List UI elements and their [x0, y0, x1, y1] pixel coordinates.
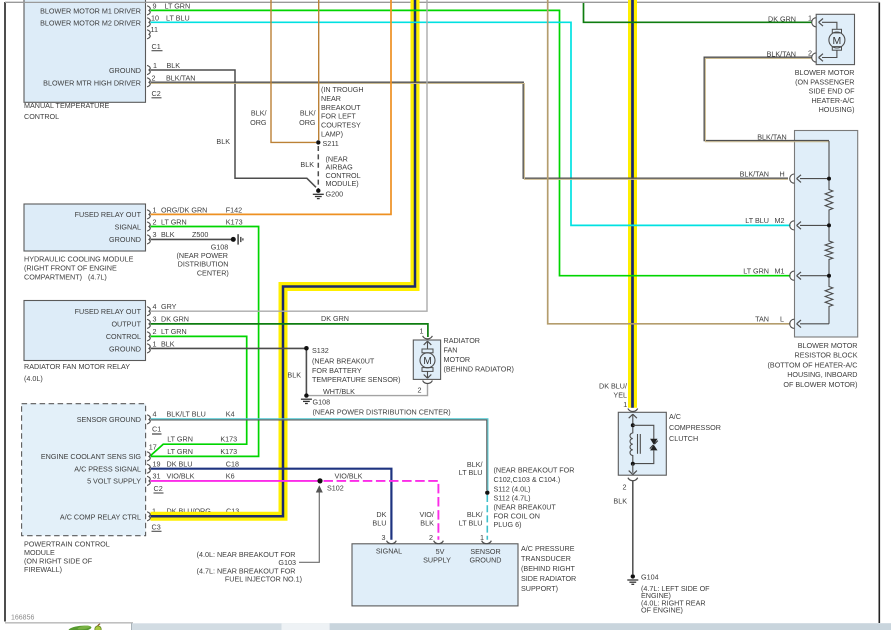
svg-text:TRANSDUCER: TRANSDUCER: [521, 554, 571, 563]
wire: TAN from top of page to resistor block L: [548, 0, 791, 324]
svg-text:BLOWER MOTOR: BLOWER MOTOR: [795, 68, 855, 77]
wire: LT BLU blower motor M2 driver (pin 10 to resistor block M2): [151, 22, 791, 225]
svg-text:K4: K4: [226, 410, 235, 419]
ground G108 (Z500, sideways): [231, 237, 236, 242]
wire: BLK relay ground pin 1 to S132: [151, 347, 306, 349]
svg-text:2: 2: [152, 73, 156, 82]
svg-text:VIO/: VIO/: [420, 510, 434, 519]
svg-text:DK GRN: DK GRN: [161, 315, 189, 324]
svg-text:YEL: YEL: [613, 391, 627, 400]
svg-text:S112 (4.7L): S112 (4.7L): [494, 494, 531, 503]
svg-text:G200: G200: [326, 190, 344, 199]
module box: manual temperature control U1: [24, 0, 146, 102]
wire: BLK A/C compressor clutch pin 2 to G104: [632, 481, 634, 574]
svg-text:CLUTCH: CLUTCH: [669, 434, 698, 443]
svg-text:FAN: FAN: [444, 346, 458, 355]
wire: VIO/BLK K6 PCM 5 volt supply to S102: [151, 480, 318, 482]
bottom taskbar strip: [132, 623, 891, 630]
svg-text:A/C: A/C: [669, 412, 681, 421]
wire: BLK/LT BLU dashed from S112 to transducer pin 1: [486, 495, 488, 540]
svg-text:BLK/TAN: BLK/TAN: [166, 73, 195, 82]
wire: DK BLU C18 PCM A/C press signal to transducer pin 3: [151, 469, 392, 540]
svg-text:S211: S211: [323, 139, 339, 148]
svg-text:2: 2: [623, 483, 627, 492]
svg-text:LT GRN: LT GRN: [743, 266, 769, 275]
svg-text:2: 2: [153, 327, 157, 336]
svg-text:LT GRN: LT GRN: [161, 327, 187, 336]
labels: S132 / G108 / radiator fan motor: [287, 326, 514, 416]
svg-text:BREAKOUT: BREAKOUT: [321, 103, 361, 112]
svg-text:COURTESY: COURTESY: [321, 121, 361, 130]
ground G104: [631, 574, 635, 578]
svg-text:NEAR: NEAR: [321, 94, 341, 103]
labels: A/C compressor clutch / G104: [599, 382, 721, 615]
svg-text:COMPRESSOR: COMPRESSOR: [669, 423, 721, 432]
svg-text:RADIATOR: RADIATOR: [444, 336, 480, 345]
svg-text:CENTER): CENTER): [197, 269, 229, 278]
connector brackets: hydraulic cooling module pins 1,2,3: [147, 210, 150, 219]
labels: S102 / G103 note: [197, 471, 363, 583]
svg-text:BLOWER MOTOR M1 DRIVER: BLOWER MOTOR M1 DRIVER: [40, 6, 141, 15]
svg-text:DISTRIBUTION: DISTRIBUTION: [178, 260, 229, 269]
svg-text:FUSED RELAY OUT: FUSED RELAY OUT: [75, 307, 142, 316]
svg-text:BLK: BLK: [287, 371, 301, 380]
svg-text:ORG/DK GRN: ORG/DK GRN: [161, 205, 207, 214]
svg-text:OF ENGINE): OF ENGINE): [641, 606, 683, 615]
svg-text:(NEAR BREAK0UT: (NEAR BREAK0UT: [312, 357, 375, 366]
svg-text:M2: M2: [775, 216, 785, 225]
svg-text:S112 (4.0L): S112 (4.0L): [494, 485, 531, 494]
svg-text:S102: S102: [327, 484, 344, 493]
labels: blower motor / resistor block: [740, 14, 858, 389]
svg-text:BLOWER MOTOR M2 DRIVER: BLOWER MOTOR M2 DRIVER: [40, 18, 141, 27]
svg-text:GROUND: GROUND: [470, 556, 502, 565]
ground G108 (near power distribution center): [304, 393, 308, 397]
resistor R-H/M2: [825, 190, 833, 211]
svg-text:C18: C18: [226, 460, 239, 469]
component box: blower motor M1: [816, 14, 854, 64]
svg-text:L: L: [780, 315, 784, 324]
svg-text:BLOWER MTR HIGH DRIVER: BLOWER MTR HIGH DRIVER: [43, 78, 141, 87]
svg-text:DK GRN: DK GRN: [321, 314, 349, 323]
wire: BLK S132 down to G108: [305, 350, 307, 394]
svg-text:BLK/TAN: BLK/TAN: [740, 169, 769, 178]
radiator fan motor internal symbol: [427, 341, 429, 349]
svg-text:BLK: BLK: [167, 61, 181, 70]
svg-text:1: 1: [480, 533, 484, 542]
svg-text:5 VOLT SUPPLY: 5 VOLT SUPPLY: [87, 477, 141, 486]
svg-text:LAMP): LAMP): [321, 129, 343, 138]
connector underline C1 C2 (manual temp control): [152, 50, 163, 52]
svg-text:RADIATOR FAN MOTOR RELAY: RADIATOR FAN MOTOR RELAY: [24, 362, 130, 371]
wire: LT GRN relay control pin 2 to PCM pin 17 (upper row): [150, 336, 246, 455]
svg-text:3: 3: [153, 315, 157, 324]
svg-text:1: 1: [153, 205, 157, 214]
labels: hydraulic cooling module pins: [24, 205, 243, 281]
svg-text:11: 11: [151, 25, 158, 34]
module box: powertrain control module U3 (dashed): [22, 404, 146, 536]
svg-text:MOTOR: MOTOR: [444, 355, 471, 364]
wire highlight: DK BLU/YEL yellow band to A/C compressor clutch: [628, 0, 637, 408]
resistor R-M2/M1: [825, 241, 833, 260]
svg-text:OUTPUT: OUTPUT: [111, 320, 141, 329]
component box: A/C compressor clutch L1: [618, 412, 666, 475]
svg-text:BLK: BLK: [300, 160, 314, 169]
svg-text:PLUG 6): PLUG 6): [494, 520, 522, 529]
ground G200: [316, 189, 320, 193]
svg-text:K173: K173: [226, 217, 243, 226]
svg-text:C3: C3: [152, 523, 161, 532]
leader line to S102 from G103 note: [299, 492, 319, 562]
svg-text:BLK: BLK: [613, 497, 627, 506]
svg-text:BLK/: BLK/: [300, 109, 316, 118]
svg-text:BLK: BLK: [161, 340, 175, 349]
svg-text:M: M: [833, 35, 842, 47]
svg-text:MANUAL TEMPERATURE: MANUAL TEMPERATURE: [24, 101, 110, 110]
svg-text:166856: 166856: [11, 615, 34, 622]
svg-text:C2: C2: [154, 484, 163, 493]
wire highlight: DK BLU/ORG circuit yellow band (PCM pin1 to top of page): [151, 0, 416, 516]
svg-text:FOR BATTERY: FOR BATTERY: [312, 366, 362, 375]
wire: DK BLU/YEL core to A/C compressor clutch pin 1: [631, 0, 634, 408]
svg-text:1: 1: [153, 61, 157, 70]
svg-text:(NEAR BREAKOUT FOR: (NEAR BREAKOUT FOR: [494, 466, 575, 475]
svg-text:2: 2: [418, 385, 422, 394]
A/C compressor clutch pin 1 bracket: [628, 409, 638, 412]
svg-text:OF BLOWER MOTOR): OF BLOWER MOTOR): [783, 380, 857, 389]
svg-text:19: 19: [153, 460, 161, 469]
connector brackets: PCM pins 4,17,19,31,1: [147, 415, 150, 424]
bottom page edge line: [5, 622, 133, 624]
svg-text:H: H: [780, 169, 785, 178]
svg-text:4: 4: [153, 410, 157, 419]
svg-text:HOUSING): HOUSING): [819, 105, 855, 114]
frame top border (over boxes): [5, 1, 880, 3]
connector brackets: manual temperature control pins 9,10,11,1,2: [147, 6, 150, 15]
svg-text:C1: C1: [152, 42, 161, 51]
resistor block pin L bracket: [790, 319, 801, 328]
svg-text:VIO/BLK: VIO/BLK: [335, 471, 363, 480]
A/C compressor clutch pin 2 bracket: [628, 478, 638, 481]
svg-text:CONTROL: CONTROL: [106, 332, 141, 341]
splice S211: [316, 140, 320, 144]
wire: BLK/LT BLU K4 PCM sensor ground to S112 / transducer pin 1: [151, 419, 488, 491]
blower motor pin 1 bracket: [812, 18, 823, 27]
wire: DK BLU/ORG core C13 (PCM A/C comp relay ctrl): [151, 0, 416, 516]
svg-text:(IN TROUGH: (IN TROUGH: [321, 85, 364, 94]
svg-text:A/C PRESS SIGNAL: A/C PRESS SIGNAL: [74, 465, 141, 474]
svg-text:K173: K173: [220, 447, 237, 456]
resistor R-M1/L: [825, 287, 833, 307]
svg-text:(ON PASSENGER: (ON PASSENGER: [795, 77, 854, 86]
svg-text:K173: K173: [220, 435, 237, 444]
module box: hydraulic cooling module U2: [24, 204, 146, 251]
transducer pin 3 bracket: [387, 541, 397, 544]
svg-text:C2: C2: [152, 89, 161, 98]
transducer pin 2 bracket: [434, 541, 444, 544]
svg-text:FUSED RELAY OUT: FUSED RELAY OUT: [75, 210, 142, 219]
svg-text:BLK/: BLK/: [467, 510, 483, 519]
svg-text:ORG: ORG: [250, 118, 267, 127]
svg-text:Z500: Z500: [192, 230, 208, 239]
svg-text:HOUSING, INBOARD: HOUSING, INBOARD: [787, 370, 857, 379]
connector brackets: radiator fan motor relay pins 4,3,2,1: [147, 307, 150, 316]
svg-text:GROUND: GROUND: [109, 66, 141, 75]
connector underline C1 C2 C3 (PCM): [152, 433, 162, 435]
svg-text:2: 2: [153, 217, 157, 226]
svg-text:SUPPORT): SUPPORT): [521, 584, 558, 593]
svg-text:K6: K6: [226, 472, 235, 481]
svg-text:BLK/: BLK/: [251, 109, 267, 118]
wire: GRY fused relay out (relay pin 4) to top of page: [151, 0, 428, 311]
blower motor internal wiring and motor symbol: [822, 22, 837, 29]
wire: ORG/DK GRN F142 hydraulic module pin 1 to top of page: [151, 0, 392, 214]
wire: DK GRN relay output pin 3 to radiator fan motor pin 1: [151, 324, 428, 337]
resistor block internal wires: [800, 178, 829, 180]
svg-text:LT GRN: LT GRN: [167, 447, 193, 456]
svg-text:FOR LEFT: FOR LEFT: [321, 112, 356, 121]
component box: A/C pressure transducer B1: [352, 544, 518, 606]
svg-text:MODULE): MODULE): [326, 179, 359, 188]
radiator fan motor pin 1 bracket: [423, 336, 433, 339]
svg-text:1: 1: [420, 326, 424, 335]
wire: VIO/BLK dashed S102 to transducer pin 2: [324, 481, 439, 540]
frame left border: [4, 2, 6, 622]
radiator fan motor pin 2 bracket: [423, 381, 433, 384]
svg-text:BLOWER MOTOR: BLOWER MOTOR: [798, 341, 858, 350]
A/C compressor clutch coil and diode: [632, 414, 634, 425]
frame top border: [5, 1, 880, 3]
svg-text:1: 1: [623, 400, 627, 409]
svg-text:M: M: [423, 356, 431, 367]
svg-text:F142: F142: [226, 205, 242, 214]
svg-text:C1: C1: [152, 425, 161, 434]
logo leaf graphic (cut off at bottom): [68, 624, 101, 630]
wire: DK GRN from top of page to blower motor pin 1: [584, 3, 813, 22]
svg-text:DK BLU/: DK BLU/: [599, 382, 627, 391]
svg-text:GROUND: GROUND: [109, 235, 141, 244]
svg-text:ENGINE COOLANT SENS SIG: ENGINE COOLANT SENS SIG: [41, 452, 142, 461]
svg-text:G108: G108: [211, 242, 229, 251]
svg-text:BLK: BLK: [216, 137, 230, 146]
svg-text:31: 31: [153, 472, 161, 481]
labels: transducer wires and S112: [372, 460, 576, 593]
wire: BLK/TAN blower mtr high driver (pin 2 to resistor block H): [151, 82, 789, 178]
svg-text:LT GRN: LT GRN: [167, 435, 193, 444]
svg-text:1: 1: [153, 340, 157, 349]
wire: BLK/ORG vertical from top of page to S211: [318, 0, 320, 140]
svg-text:ORG: ORG: [299, 118, 316, 127]
svg-text:A/C PRESSURE: A/C PRESSURE: [521, 544, 575, 553]
svg-text:(BEHIND RIGHT: (BEHIND RIGHT: [521, 564, 576, 573]
svg-text:(RIGHT FRONT OF ENGINE: (RIGHT FRONT OF ENGINE: [24, 264, 117, 273]
svg-text:(NEAR BREAK0UT: (NEAR BREAK0UT: [494, 503, 557, 512]
wire: BLK/TAN blower motor pin 2 to resistor block top entry: [704, 57, 829, 140]
svg-text:9: 9: [153, 1, 157, 10]
svg-text:TEMPERATURE SENSOR): TEMPERATURE SENSOR): [312, 375, 401, 384]
svg-text:SIGNAL: SIGNAL: [115, 222, 141, 231]
svg-text:S132: S132: [312, 346, 329, 355]
svg-text:BLU: BLU: [372, 519, 386, 528]
wire: LT GRN K173 hydraulic module pin 2 to PCM pin 17: [151, 227, 259, 457]
svg-text:(BEHIND RADIATOR): (BEHIND RADIATOR): [444, 364, 514, 373]
svg-text:CONTROL: CONTROL: [24, 112, 59, 121]
svg-text:SENSOR GROUND: SENSOR GROUND: [77, 415, 141, 424]
svg-text:A/C COMP RELAY CTRL: A/C COMP RELAY CTRL: [60, 512, 141, 521]
svg-text:3: 3: [153, 230, 157, 239]
svg-text:HYDRAULIC COOLING MODULE: HYDRAULIC COOLING MODULE: [24, 255, 134, 264]
splice S132: [304, 346, 309, 351]
labels: radiator fan motor relay pins: [24, 302, 349, 383]
svg-text:WHT/BLK: WHT/BLK: [323, 387, 355, 396]
svg-text:FUEL INJECTOR NO.1): FUEL INJECTOR NO.1): [225, 575, 302, 584]
svg-text:TAN: TAN: [755, 315, 769, 324]
svg-text:BLK: BLK: [161, 230, 175, 239]
component box: radiator fan motor M2: [413, 340, 440, 379]
svg-text:SIGNAL: SIGNAL: [376, 547, 402, 556]
svg-text:VIO/BLK: VIO/BLK: [167, 472, 195, 481]
blower motor pin 2 bracket: [812, 53, 823, 62]
resistor block pin M1 bracket: [790, 271, 801, 280]
transducer pin 1 bracket: [482, 541, 492, 544]
labels: S211 / G200 area: [216, 85, 363, 199]
svg-text:G108: G108: [313, 398, 331, 407]
svg-text:3: 3: [382, 533, 386, 542]
wire: BLK ground from manual temp control pin 1 to G200: [151, 70, 317, 187]
svg-text:GROUND: GROUND: [109, 344, 141, 353]
svg-text:C102,C103 & C104.): C102,C103 & C104.): [494, 475, 561, 484]
svg-text:DK BLU: DK BLU: [167, 460, 193, 469]
wire: BLK/ORG from top of page to S211: [271, 0, 316, 142]
svg-text:(4.0L): (4.0L): [24, 374, 43, 383]
svg-text:BLK: BLK: [420, 519, 434, 528]
svg-text:SUPPLY: SUPPLY: [423, 556, 451, 565]
frame right border: [878, 2, 880, 623]
svg-text:DK: DK: [376, 510, 386, 519]
labels: PCM pins: [24, 410, 239, 574]
svg-text:SIDE RADIATOR: SIDE RADIATOR: [521, 574, 576, 583]
wire: BLK Z500 hydraulic module pin 3 to G108: [151, 238, 232, 240]
svg-text:LT BLU: LT BLU: [166, 13, 190, 22]
component box: blower motor resistor block R1: [795, 131, 858, 338]
labels: manual temperature control pins: [24, 1, 195, 121]
splice S112: [485, 491, 489, 495]
svg-text:M1: M1: [775, 266, 785, 275]
svg-text:LT BLU: LT BLU: [459, 468, 483, 477]
svg-text:LT BLU: LT BLU: [459, 519, 483, 528]
svg-text:4: 4: [153, 302, 157, 311]
svg-text:FIREWALL): FIREWALL): [24, 565, 62, 574]
wire: LT GRN blower motor M1 driver (pin 9 to resistor block M1): [151, 10, 791, 275]
svg-text:SIDE END OF: SIDE END OF: [809, 87, 856, 96]
svg-text:(BOTTOM OF HEATER-A/C: (BOTTOM OF HEATER-A/C: [768, 360, 858, 369]
svg-text:LT GRN: LT GRN: [165, 1, 191, 10]
wire: WHT/BLK radiator fan motor pin 2 to G108: [308, 384, 428, 396]
splice S102: [317, 478, 322, 483]
module box: radiator fan motor relay K1: [24, 301, 146, 361]
svg-text:RESISTOR BLOCK: RESISTOR BLOCK: [795, 351, 858, 360]
svg-text:LT GRN: LT GRN: [161, 217, 187, 226]
svg-text:(NEAR POWER DISTRIBUTION CENTE: (NEAR POWER DISTRIBUTION CENTER): [313, 407, 451, 416]
junction dots inside resistor block: [827, 177, 831, 181]
svg-text:HEATER-A/C: HEATER-A/C: [812, 96, 855, 105]
svg-text:2: 2: [429, 533, 433, 542]
svg-text:GRY: GRY: [161, 302, 177, 311]
svg-text:BLK/LT BLU: BLK/LT BLU: [167, 410, 206, 419]
svg-text:LT BLU: LT BLU: [745, 216, 769, 225]
wire: BLK dashed S211 to G200: [317, 146, 319, 189]
resistor block pin H bracket: [790, 174, 801, 183]
svg-text:10: 10: [151, 13, 159, 22]
resistor block pin M2 bracket: [790, 221, 801, 230]
svg-text:COMPARTMENT) (4.7L): COMPARTMENT) (4.7L): [24, 273, 107, 282]
svg-text:G104: G104: [641, 573, 659, 582]
